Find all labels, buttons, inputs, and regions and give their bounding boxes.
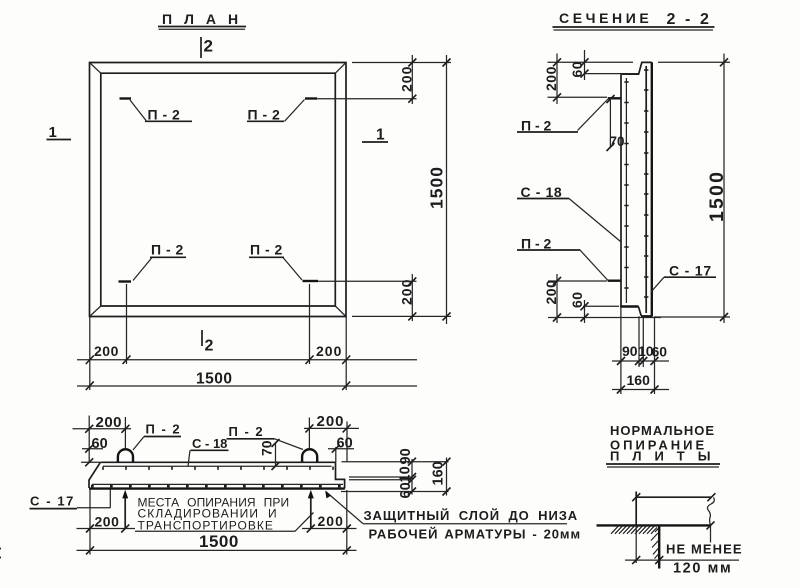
dim 60 left bview	[81, 436, 108, 466]
svg-text:П - 2: П - 2	[229, 424, 265, 439]
section mark 1 left	[47, 124, 72, 141]
SECTION22-GROUP	[517, 10, 730, 394]
slab side outline	[89, 462, 345, 488]
bearing dim 120	[625, 525, 743, 576]
svg-text:2: 2	[204, 37, 213, 56]
svg-text:200: 200	[318, 513, 344, 529]
dimension line 200 bottom right	[408, 274, 416, 321]
svg-text:С - 17: С - 17	[669, 263, 712, 279]
loop bar top section	[517, 98, 621, 133]
label П-2 left bview	[133, 422, 181, 451]
svg-text:НЕ МЕНЕЕ: НЕ МЕНЕЕ	[666, 542, 743, 557]
left bottom dim 60	[548, 291, 661, 323]
loop left side	[118, 449, 133, 462]
left top dim 60	[569, 50, 638, 80]
dim 60 right bview	[328, 436, 354, 463]
mesh C-17 line	[644, 66, 648, 313]
svg-text:П - 2: П - 2	[148, 107, 181, 123]
dim 70 section	[607, 95, 625, 151]
extension loop BR bottom	[309, 284, 311, 364]
bottom dims extensions	[621, 307, 655, 395]
svg-text:60: 60	[92, 436, 108, 452]
extension left corner bottom	[89, 317, 91, 391]
extension right corner bottom	[345, 317, 347, 391]
bearing top ticks	[632, 493, 715, 501]
title normalnoe opiranie plity	[606, 423, 723, 467]
svg-text:П - 2: П - 2	[146, 422, 182, 437]
svg-text:1500: 1500	[706, 170, 728, 222]
svg-text:200: 200	[96, 414, 123, 431]
break squiggle	[707, 498, 714, 526]
svg-text:160: 160	[431, 461, 447, 485]
wall hatching top	[611, 526, 659, 534]
svg-text:90: 90	[622, 343, 638, 359]
svg-text:200: 200	[317, 413, 345, 430]
svg-text:200: 200	[399, 66, 415, 92]
support arrow left	[124, 496, 126, 529]
title ПЛАН	[158, 11, 250, 29]
svg-text:ЗАЩИТНЫЙ СЛОЙ ДО НИЗА: ЗАЩИТНЫЙ СЛОЙ ДО НИЗА	[364, 508, 579, 523]
wall hatching side	[651, 533, 659, 559]
dimension line 1500 right	[443, 55, 451, 324]
label C-17 bview	[30, 489, 111, 508]
svg-text:П - 2: П - 2	[250, 242, 283, 258]
svg-text:1: 1	[376, 127, 385, 144]
dim 70 bview	[259, 439, 280, 470]
plan slab outline	[90, 63, 347, 317]
section mark 2 bottom	[202, 330, 214, 355]
loop bar bottom section	[517, 236, 621, 281]
svg-text:90: 90	[398, 448, 414, 464]
svg-text:60: 60	[398, 482, 414, 498]
loop mark BL	[119, 242, 187, 282]
dim 200 top-left bview	[73, 414, 132, 463]
svg-text:С - 18: С - 18	[192, 436, 227, 451]
dim 200 top-right bview	[304, 413, 359, 462]
right dim 1500 section	[655, 54, 730, 324]
svg-text:200: 200	[543, 66, 559, 91]
left top dim 200	[543, 54, 633, 105]
section mark 1 right	[362, 127, 388, 144]
dimension line bottom 200s	[77, 356, 417, 365]
svg-text:10: 10	[398, 466, 414, 482]
section mark 2 top	[201, 37, 213, 59]
svg-text:200: 200	[399, 279, 415, 305]
bearing bottom right ext	[707, 521, 715, 542]
right dim stack 90 10 60	[398, 448, 417, 498]
loop mark TR	[247, 99, 417, 123]
extension bottom edge right	[352, 315, 451, 317]
svg-text:НОРМАЛЬНОЕ: НОРМАЛЬНОЕ	[610, 423, 715, 438]
svg-text:120 мм: 120 мм	[673, 561, 732, 577]
right dim stack 160	[431, 458, 451, 496]
svg-text:ТРАНСПОРТИРОВКЕ: ТРАНСПОРТИРОВКЕ	[138, 519, 274, 533]
svg-text:СЕЧЕНИЕ: СЕЧЕНИЕ	[559, 10, 652, 26]
extension loop BL bottom	[126, 284, 128, 364]
dimension line bottom 1500	[77, 382, 417, 391]
svg-text:1: 1	[49, 124, 57, 141]
svg-text:60: 60	[337, 436, 353, 452]
bearing slab	[597, 492, 712, 526]
label C-18 bview	[188, 436, 229, 466]
svg-text:ПЛАН: ПЛАН	[162, 11, 250, 27]
label C-17	[651, 263, 716, 293]
loop mark BR	[249, 242, 417, 282]
svg-text:200: 200	[316, 343, 342, 359]
svg-text:2 - 2: 2 - 2	[667, 11, 712, 28]
svg-text:П - 2: П - 2	[521, 118, 552, 134]
svg-text:200: 200	[94, 343, 119, 359]
title СЕЧЕНИЕ 2-2	[553, 10, 715, 30]
svg-text:1500: 1500	[427, 166, 447, 209]
wall face	[658, 525, 660, 568]
svg-text:П - 2: П - 2	[521, 236, 552, 252]
text zashitny sloy	[325, 491, 581, 542]
extension top edge right	[352, 62, 451, 64]
dim 200 bottom-right bview	[302, 490, 357, 555]
svg-text:70: 70	[610, 134, 625, 149]
svg-text:2: 2	[205, 338, 214, 355]
loop right side	[302, 449, 317, 462]
dim 200 bottom-left bview	[77, 489, 136, 555]
svg-text:РАБОЧЕЙ АРМАТУРЫ - 20мм: РАБОЧЕЙ АРМАТУРЫ - 20мм	[369, 527, 581, 542]
bottom dim line 160	[612, 372, 669, 394]
svg-text:П - 2: П - 2	[151, 242, 184, 258]
svg-text:ПЛИТЫ: ПЛИТЫ	[610, 449, 723, 464]
scan artifact bottom-left	[0, 549, 1, 558]
svg-text:1500: 1500	[196, 371, 232, 388]
dim 1500 bottom bview	[77, 532, 357, 554]
slab section outline	[620, 62, 652, 316]
left bottom dim 200	[543, 274, 607, 323]
svg-text:60: 60	[569, 61, 585, 78]
svg-text:200: 200	[543, 280, 559, 305]
bottom rebar line and dots	[91, 484, 343, 487]
BEARING-GROUP	[597, 423, 743, 577]
text mesta opiraniya	[135, 496, 314, 533]
mesh C-18 line	[624, 78, 628, 303]
mesh C-18 side line	[103, 466, 333, 470]
svg-text:1500: 1500	[199, 532, 239, 551]
loop mark TL	[120, 99, 193, 123]
BOTTOMVIEW-GROUP	[0, 413, 581, 558]
label П-2 right bview	[227, 424, 304, 450]
svg-text:60: 60	[569, 291, 585, 308]
svg-text:60: 60	[652, 344, 668, 360]
label C-18	[517, 184, 621, 242]
svg-text:70: 70	[259, 440, 275, 456]
dimension line 200 top right	[408, 55, 416, 104]
svg-text:200: 200	[95, 514, 120, 530]
support arrow right	[310, 496, 312, 529]
svg-text:П - 2: П - 2	[248, 107, 281, 123]
bottom dim line 90 10 60	[612, 343, 669, 365]
PLAN-GROUP	[47, 11, 452, 390]
right dim stack extensions	[341, 462, 449, 492]
svg-text:160: 160	[627, 372, 651, 388]
svg-text:С - 18: С - 18	[521, 184, 563, 200]
svg-text:С - 17: С - 17	[30, 494, 75, 509]
